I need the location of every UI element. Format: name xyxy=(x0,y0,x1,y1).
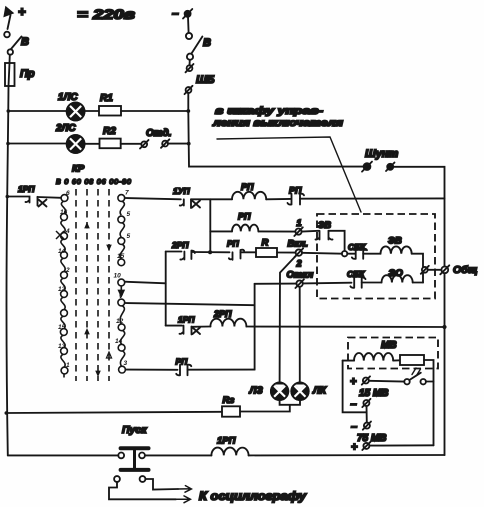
svg-text:–: – xyxy=(351,399,357,411)
contact SBK upper xyxy=(352,249,367,259)
coil 1RP xyxy=(211,448,248,456)
svg-text:Вкл.: Вкл. xyxy=(288,239,308,250)
svg-text:12: 12 xyxy=(116,318,124,325)
wire row5 xyxy=(125,369,177,371)
svg-text:в шкафу управ-: в шкафу управ- xyxy=(215,105,324,117)
wire row1 xyxy=(125,198,181,199)
svg-text:ления выключателя: ления выключателя xyxy=(212,117,343,129)
svg-text:РП: РП xyxy=(176,357,189,367)
wire vertical x254.6 xyxy=(254,284,256,370)
svg-text:СБК: СБК xyxy=(348,242,366,252)
wire row1 to right bus xyxy=(300,197,445,199)
resistor R2 xyxy=(100,139,121,149)
svg-text:ШБ: ШБ xyxy=(196,74,215,86)
coil RP row2 xyxy=(232,225,258,232)
contact EV (in cabinet) xyxy=(316,231,333,240)
switch V (right) xyxy=(186,33,203,60)
wire xyxy=(8,110,66,112)
wire xyxy=(424,360,434,445)
cam switch KR left chain xyxy=(60,195,68,378)
node (junction ring) xyxy=(342,251,347,256)
svg-text:1УП: 1УП xyxy=(173,186,190,196)
wire row2 xyxy=(258,230,295,232)
svg-text:КР: КР xyxy=(72,164,85,175)
svg-text:14: 14 xyxy=(58,248,66,255)
wire xyxy=(121,110,188,112)
svg-text:12: 12 xyxy=(58,286,66,293)
fuse Pr xyxy=(5,63,15,86)
svg-text:1РП: 1РП xyxy=(18,184,35,194)
svg-text:РП: РП xyxy=(238,212,251,222)
button Pusk xyxy=(114,448,148,482)
cam arrows xyxy=(84,222,112,377)
KR dashed cam lines xyxy=(76,189,109,381)
wire right bus xyxy=(393,167,444,455)
switch 11 xyxy=(404,368,433,384)
svg-text:R2: R2 xyxy=(103,126,116,137)
wire osc upper xyxy=(145,479,178,490)
wire row3 in box xyxy=(347,253,355,255)
svg-text:15: 15 xyxy=(58,324,66,331)
terminal -15mV xyxy=(351,399,371,411)
KR left chain pin numbers xyxy=(58,190,70,369)
arrow xyxy=(178,486,191,493)
wire row3 xyxy=(191,251,229,253)
contact Shunt (disconnect) xyxy=(362,162,395,172)
terminal Obshch xyxy=(440,265,449,274)
svg-text:2: 2 xyxy=(296,259,302,269)
wire KR to vertical (y304) xyxy=(125,303,255,305)
svg-text:1РП: 1РП xyxy=(217,436,236,447)
svg-text:6: 6 xyxy=(66,190,70,197)
contact RP row3 xyxy=(229,250,244,260)
contact SBK lower xyxy=(350,278,365,288)
svg-text:Отд.: Отд. xyxy=(146,128,172,139)
wire xyxy=(9,55,11,63)
svg-text:1ЛС: 1ЛС xyxy=(58,92,78,103)
wire KR to vertical (y282) xyxy=(125,282,166,284)
lamp LK xyxy=(291,383,308,400)
svg-text:В 0 60 08 06 00-80: В 0 60 08 06 00-80 xyxy=(56,179,132,186)
svg-text:13: 13 xyxy=(58,343,66,350)
svg-text:2: 2 xyxy=(65,267,70,274)
arrow xyxy=(176,496,190,503)
switch Otkl (pos.2) xyxy=(295,279,304,288)
coil MV xyxy=(354,353,393,361)
wire xyxy=(187,17,190,33)
terminal +75mV xyxy=(351,442,371,454)
node bus-R1 xyxy=(7,109,11,113)
node bus-R2 xyxy=(6,142,10,146)
node dot xyxy=(208,250,212,254)
contact 2RP xyxy=(180,251,194,260)
svg-text:Пуск: Пуск xyxy=(122,424,147,436)
wire row1 xyxy=(266,198,290,200)
svg-text:15 МВ: 15 МВ xyxy=(359,388,388,399)
wire row3 xyxy=(277,252,296,254)
wire lamps common xyxy=(240,400,300,412)
node bus-1RP xyxy=(6,195,10,199)
wire Pusk to left bus xyxy=(8,454,118,456)
svg-text:5: 5 xyxy=(127,211,131,218)
resistor (MV circuit) xyxy=(400,355,424,365)
wire Otkl row right xyxy=(303,282,352,285)
svg-text:МВ: МВ xyxy=(381,340,397,351)
contact to Obshch (slashed) xyxy=(421,266,441,274)
resistor Rz xyxy=(222,406,240,416)
svg-text:ЭО: ЭО xyxy=(389,268,404,279)
wire xyxy=(168,143,188,145)
svg-text:–: – xyxy=(351,421,357,433)
wire xyxy=(393,359,400,361)
wire xyxy=(8,143,67,145)
lamp LZ xyxy=(271,383,288,400)
wire row5 xyxy=(188,369,255,371)
svg-text:Rз: Rз xyxy=(223,395,235,406)
wire xyxy=(85,110,100,112)
coil EO xyxy=(382,275,413,282)
node bus-Rz xyxy=(5,411,9,415)
svg-text:ЭВ: ЭВ xyxy=(318,220,331,230)
contact RP row5 xyxy=(176,365,191,376)
wire xyxy=(188,93,363,167)
svg-text:Шунт: Шунт xyxy=(365,148,399,160)
contact 1RP (NC with x) xyxy=(7,197,61,207)
svg-text:4: 4 xyxy=(65,228,70,235)
wire xyxy=(413,282,423,284)
svg-text:2РП: 2РП xyxy=(171,240,189,250)
svg-text:3: 3 xyxy=(124,360,128,367)
svg-text:R: R xyxy=(262,238,269,249)
svg-text:16: 16 xyxy=(60,209,68,216)
wire to node xyxy=(329,231,345,251)
svg-text:–: – xyxy=(172,6,179,20)
contact RP row1 xyxy=(288,194,305,205)
switch blade 2 xyxy=(280,255,297,383)
mark X on left chain xyxy=(56,231,64,239)
wire vertical x165.7 xyxy=(165,252,167,326)
contact 1 (pos.1 of Vkl) xyxy=(294,227,303,236)
wire xyxy=(412,254,423,283)
wire Pusk row from right bus xyxy=(249,454,445,456)
svg-text:РП: РП xyxy=(227,239,240,249)
wire row1 xyxy=(191,198,232,200)
resistor R xyxy=(256,248,277,257)
wire xyxy=(366,406,368,422)
wire row3 to node xyxy=(302,252,342,255)
coil EV xyxy=(381,246,412,253)
wire xyxy=(363,253,380,255)
svg-text:РП: РП xyxy=(241,182,254,192)
wire xyxy=(369,380,404,383)
wire MV coil left drop xyxy=(343,361,367,413)
cam switch KR right chain xyxy=(118,195,126,373)
terminal - (minus supply) xyxy=(172,6,192,20)
svg-text:К осциллографу: К осциллографу xyxy=(199,491,307,503)
wire LK drop xyxy=(299,287,301,383)
wire row4 to right bus xyxy=(246,326,444,329)
wire Otkl row xyxy=(255,283,297,285)
wire xyxy=(189,60,191,65)
resistor R1 xyxy=(99,106,121,116)
cabinet dashed box xyxy=(317,214,435,299)
contact Otd (disconnect) xyxy=(140,139,169,148)
svg-text:7: 7 xyxy=(125,190,129,197)
wire row4 start xyxy=(166,325,182,327)
svg-text:+: + xyxy=(351,442,358,454)
wire osc lower xyxy=(109,482,176,499)
wire xyxy=(370,444,434,446)
terminal + (plus supply) xyxy=(5,8,13,30)
wire row3 xyxy=(241,251,257,253)
coil 2RP xyxy=(210,319,246,327)
svg-text:ЛК: ЛК xyxy=(312,386,327,397)
leader line xyxy=(217,137,361,212)
svg-text:1: 1 xyxy=(297,218,302,228)
contact 1UP (with x) xyxy=(180,199,200,208)
svg-text:Общ: Общ xyxy=(453,264,478,276)
svg-text:+: + xyxy=(18,4,26,19)
node dot right bus xyxy=(442,325,446,329)
wire xyxy=(343,360,354,362)
KR right chain pin numbers xyxy=(114,190,131,368)
svg-text:+: + xyxy=(350,376,357,388)
wire left bus xyxy=(6,86,8,455)
wire row3 left xyxy=(166,251,182,253)
svg-text:= 220в: = 220в xyxy=(77,6,136,22)
svg-text:10: 10 xyxy=(114,273,122,280)
MV dashed box xyxy=(348,338,438,369)
terminal +15mV xyxy=(350,376,370,388)
svg-text:R1: R1 xyxy=(100,93,113,104)
svg-text:В: В xyxy=(21,36,29,48)
contact ShB (disconnect) xyxy=(185,64,194,94)
svg-text:75 МВ: 75 МВ xyxy=(357,433,386,444)
svg-text:Пр: Пр xyxy=(20,68,35,80)
wire xyxy=(192,326,211,328)
svg-text:1: 1 xyxy=(66,362,70,369)
wire row2 into box xyxy=(302,230,319,233)
svg-text:СБК: СБК xyxy=(347,269,365,279)
svg-text:2РП: 2РП xyxy=(213,309,232,319)
svg-text:РП: РП xyxy=(289,186,302,196)
switch Vkl (common) xyxy=(295,248,304,257)
coil RP row1 xyxy=(232,192,266,199)
svg-text:В: В xyxy=(203,37,211,49)
svg-text:ЭВ: ЭВ xyxy=(388,236,402,247)
svg-text:2ЛС: 2ЛС xyxy=(55,123,76,134)
switch V (left) xyxy=(4,32,21,55)
wire row2 xyxy=(210,230,232,232)
wire xyxy=(362,282,382,284)
svg-text:14: 14 xyxy=(115,338,123,345)
svg-text:Откл: Откл xyxy=(287,270,314,281)
wire Rz to bus xyxy=(6,412,222,413)
svg-text:5: 5 xyxy=(127,233,131,240)
svg-text:15: 15 xyxy=(117,253,125,260)
svg-text:v: v xyxy=(119,293,123,300)
wire xyxy=(145,454,212,456)
lamp 2LS xyxy=(67,135,85,153)
terminal -75mV xyxy=(351,421,371,433)
svg-text:1РП: 1РП xyxy=(178,315,195,325)
svg-text:ЛЗ: ЛЗ xyxy=(249,386,264,397)
wire xyxy=(121,143,141,145)
contact 1RP (with x) xyxy=(180,326,201,335)
wire xyxy=(85,143,100,145)
lamp 1LS xyxy=(67,103,85,121)
wire vertical connector xyxy=(209,199,211,252)
